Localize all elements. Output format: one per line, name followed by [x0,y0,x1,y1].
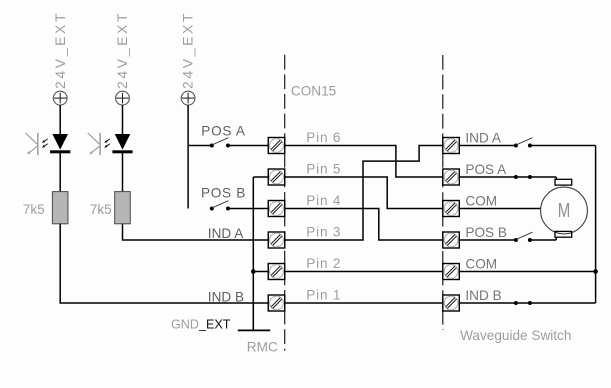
junction dot GND/Pin2 [251,269,256,274]
label IND A (right) [465,130,501,145]
wire Pin2 to GND rail [253,271,268,273]
wire POS B to switch S5 [459,239,516,241]
wire Pin4 to POS B (right) [285,209,443,241]
label Pin 5 [306,161,341,176]
label 7k5 R2 [90,202,112,217]
junction dot COM2/rail [593,269,598,274]
terminal IND A (waveguide switch) [443,138,460,154]
svg-text:Pin 6: Pin 6 [306,130,341,145]
switch S1 POS A (open) [210,138,230,148]
label POS A (left) [201,124,246,139]
svg-text:24V_EXT: 24V_EXT [52,11,68,89]
svg-text:POS A: POS A [465,162,507,177]
label Pin 4 [306,193,341,208]
resistor R1 [52,192,68,224]
label RMC [247,339,278,354]
svg-text:Pin 2: Pin 2 [306,256,341,271]
wire R1 to IND B row [60,224,268,303]
label Pin 2 [306,256,341,271]
wire POS A to motor [459,177,556,180]
connector CON15 Pin 1 terminal [268,295,285,311]
motor M1 top brush [555,179,572,185]
resistor R2 [115,192,131,224]
label POS B (left) [201,186,246,201]
connector CON15 Pin 2 terminal [268,264,285,280]
svg-text:24V_EXT: 24V_EXT [114,11,130,89]
label Pin 3 [306,224,341,239]
connector CON15 Pin 3 terminal [268,232,285,248]
wire V3 down to POS switches [187,105,189,209]
wire S1 to Pin6 [228,145,268,147]
svg-text:IND B: IND B [465,288,501,303]
wire V3 branch to switch S1 [188,145,212,147]
terminal POS B (waveguide switch) [443,232,460,248]
label COM (right) [465,256,497,271]
svg-text:COM: COM [465,256,497,271]
wire Pin2 to COM2 (right) [285,271,443,273]
switch S2 POS B (open) [210,201,230,211]
label Pin 1 [306,287,341,302]
power 24V_EXT supply V1 [53,91,67,105]
wire Pin5 to COM (right) [285,177,443,209]
wire S2 to Pin4 [228,208,268,210]
svg-text:IND A: IND A [465,130,501,145]
terminal POS A (waveguide switch) [443,169,460,185]
wire Pin3 to IND A (right) [285,146,443,241]
wire right indicator rail [595,146,597,304]
connector CON15 Pin 4 terminal [268,201,285,217]
svg-text:CON15: CON15 [291,84,336,99]
wire GND vertical [252,177,254,330]
LED D1 [50,134,70,153]
label 24V_EXT V3 [180,11,196,89]
label POS A (right) [465,162,507,177]
label IND A (left) [208,226,244,241]
wire IND A to switch S3 [459,145,516,147]
label 7k5 R1 [23,202,45,217]
svg-text:POS B: POS B [465,225,507,240]
dashed boundary line CON15 (RMC unit) [284,55,286,351]
terminal COM (waveguide switch) [443,201,460,217]
wire Pin1 to IND B (right) [285,302,443,304]
label CON15 [291,84,336,99]
motor M1 body [541,187,588,234]
switch S3 IND A (open) [514,138,533,148]
switch S6 IND B (closed) [514,301,532,305]
wire V2 to LED D2 [122,105,124,135]
wire IND B to rail [459,302,595,304]
wire R2 to IND A row [123,224,269,240]
wire D2 to R2 [122,153,124,192]
LED D1 emission arrows [42,139,48,148]
wire S3 to right rail [530,145,596,147]
svg-text:Pin 5: Pin 5 [306,161,341,176]
label IND B (left) [208,290,244,305]
switch S4 POS A (closed) [514,175,532,179]
svg-text:IND A: IND A [208,226,244,241]
svg-text:24V_EXT: 24V_EXT [180,11,196,89]
terminal IND B (waveguide switch) [443,295,460,311]
terminal COM (waveguide switch) [443,264,460,280]
svg-text:Pin 1: Pin 1 [306,287,341,302]
svg-text:RMC: RMC [247,339,278,354]
label 24V_EXT V1 [52,11,68,89]
svg-text:Pin 3: Pin 3 [306,224,341,239]
wire COM to motor [459,208,540,210]
label IND B (right) [465,288,501,303]
wire Pin6 to POS A (right) [285,146,443,178]
motor M1 label M [558,200,571,222]
svg-text:POS B: POS B [201,186,246,201]
wire D1 to R1 [59,153,61,192]
photodetector symbol (gray) at D1 [25,133,37,155]
svg-text:COM: COM [465,193,497,208]
photodetector symbol (gray) at D2 [88,133,100,155]
connector CON15 Pin 6 terminal [268,138,285,154]
motor M1 bottom brush [555,231,572,237]
connector CON15 Pin 5 terminal [268,169,285,185]
svg-text:M: M [558,200,571,222]
svg-text:POS A: POS A [201,124,246,139]
svg-text:IND B: IND B [208,290,244,305]
label COM (right) [465,193,497,208]
LED D2 [112,134,132,153]
wire V1 to LED D1 [59,105,61,135]
label GND_EXT (GND gray, _EXT black) [171,318,231,332]
svg-text:7k5: 7k5 [23,202,45,217]
ground GND_EXT bar [238,329,270,331]
label 24V_EXT V2 [114,11,130,89]
wire S5 to motor bottom brush [530,237,556,240]
power 24V_EXT supply V3 [181,91,195,105]
dashed boundary line Waveguide Switch [442,55,444,330]
svg-text:GND_EXT: GND_EXT [171,318,231,332]
svg-text:Pin 4: Pin 4 [306,193,341,208]
switch S5 POS B (open) [514,232,533,242]
power 24V_EXT supply V2 [116,91,130,105]
svg-text:7k5: 7k5 [90,202,112,217]
label Pin 6 [306,130,341,145]
wire COM2 to right rail [459,271,595,273]
svg-text:Waveguide Switch: Waveguide Switch [460,328,571,343]
LED D2 emission arrows [104,139,110,148]
label Waveguide Switch [460,328,571,343]
label POS B (right) [465,225,507,240]
wire Pin5 to GND rail [253,176,268,178]
